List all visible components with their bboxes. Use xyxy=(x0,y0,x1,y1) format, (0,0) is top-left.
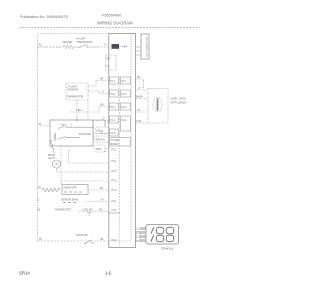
svg-text:WIRING DIAGRAM: WIRING DIAGRAM xyxy=(97,21,133,26)
terminal L2 bottom xyxy=(166,235,173,241)
svg-text:P4-2: P4-2 xyxy=(112,209,118,212)
svg-text:BL: BL xyxy=(101,237,105,241)
terminal L2 top xyxy=(166,227,173,233)
bottom wire with door switch xyxy=(38,240,109,242)
svg-text:P2-1: P2-1 xyxy=(122,81,128,83)
terminal lead stubs xyxy=(136,229,141,241)
svg-text:W: W xyxy=(39,237,42,241)
svg-text:ELECTRONIC CTRL: ELECTRONIC CTRL xyxy=(145,37,147,58)
svg-text:RLY: RLY xyxy=(107,58,112,61)
connector P3 wide box xyxy=(110,138,131,147)
wire mid to P3 pin xyxy=(69,150,109,163)
svg-text:SENSOR: SENSOR xyxy=(68,89,79,92)
board inner dashed rail xyxy=(119,76,121,213)
wire lower to P3 pin xyxy=(61,180,109,182)
relay output wire xyxy=(119,45,125,47)
relay contact box xyxy=(106,55,117,70)
terminal N top xyxy=(156,227,163,233)
terminal L1 top xyxy=(151,227,154,233)
svg-text:41: 41 xyxy=(39,43,43,47)
svg-text:BOARD: BOARD xyxy=(111,143,120,146)
drum lamp xyxy=(53,160,61,168)
svg-text:W: W xyxy=(39,122,42,126)
wire sensor to P4-1 xyxy=(85,201,109,203)
svg-text:4: 4 xyxy=(105,43,107,47)
drive motor dashed box xyxy=(148,89,168,124)
svg-text:LIGHT: LIGHT xyxy=(48,158,55,160)
svg-text:1-6: 1-6 xyxy=(105,271,112,276)
terminal block lead hatches xyxy=(140,228,146,242)
svg-text:Publication No: 5995449475: Publication No: 5995449475 xyxy=(20,15,68,19)
svg-text:P4-3: P4-3 xyxy=(112,239,118,242)
svg-text:4: 4 xyxy=(102,90,104,94)
terminal feed connector xyxy=(136,232,140,242)
svg-text:4: 4 xyxy=(139,86,141,90)
cabinet dashed outline left and top xyxy=(38,34,109,242)
motor block xyxy=(62,185,88,195)
timer junction xyxy=(76,119,78,121)
svg-text:1 BL: 1 BL xyxy=(136,119,142,123)
relay dashed box xyxy=(95,145,106,152)
terminal N bottom xyxy=(156,235,163,241)
wire thermistor down to timer xyxy=(76,100,78,120)
svg-text:P3 CON: P3 CON xyxy=(111,140,120,142)
svg-text:P3-1: P3-1 xyxy=(112,149,118,152)
wire thermistor to P1-2 xyxy=(88,91,110,94)
svg-text:3B: 3B xyxy=(100,130,103,134)
svg-text:K1: K1 xyxy=(107,65,111,68)
user interface board box xyxy=(141,34,149,59)
timer contact 1 xyxy=(58,126,94,129)
svg-text:THERMISTOR: THERMISTOR xyxy=(67,96,84,99)
svg-text:DR: DR xyxy=(97,131,101,133)
svg-text:TERM BLK: TERM BLK xyxy=(161,248,174,251)
timer drop wire xyxy=(60,146,62,184)
wire 4 xyxy=(136,89,149,91)
svg-text:SR14: SR14 xyxy=(19,271,30,276)
svg-text:BN: BN xyxy=(100,103,104,107)
svg-text:DOOR SW: DOOR SW xyxy=(79,133,91,136)
wire thermistor to P1-1 xyxy=(88,81,110,87)
motor run coil xyxy=(42,188,60,192)
svg-text:F5559HW0: F5559HW0 xyxy=(102,14,121,18)
svg-text:MTR LEADS: MTR LEADS xyxy=(171,101,187,105)
svg-text:P3-5: P3-5 xyxy=(112,189,118,192)
svg-text:W: W xyxy=(38,208,41,212)
svg-text:4N: 4N xyxy=(99,208,102,212)
svg-text:HEATER: HEATER xyxy=(63,41,73,44)
svg-text:THERMOSTAT: THERMOSTAT xyxy=(77,41,94,44)
svg-text:BK/W: BK/W xyxy=(136,95,143,99)
svg-text:P1-3: P1-3 xyxy=(111,107,117,109)
svg-text:LINE 1: LINE 1 xyxy=(60,125,67,127)
svg-text:P1-2: P1-2 xyxy=(111,94,117,96)
svg-text:THERMOSTAT: THERMOSTAT xyxy=(55,209,72,212)
page fold dashed line xyxy=(19,27,200,29)
terminal block body xyxy=(146,225,179,245)
svg-text:P2-3: P2-3 xyxy=(122,107,128,109)
heater element coil xyxy=(63,45,74,49)
svg-text:P1-1: P1-1 xyxy=(111,81,117,83)
wire lamp to P3 pin xyxy=(57,168,109,172)
svg-text:MTR: MTR xyxy=(96,149,101,151)
control board outline xyxy=(109,34,136,248)
svg-text:BL: BL xyxy=(100,186,104,190)
timer box xyxy=(50,120,93,146)
timer feed wire xyxy=(38,125,51,127)
timer top extension xyxy=(93,120,105,127)
svg-text:+LED SW: +LED SW xyxy=(82,209,93,212)
svg-text:P3-2: P3-2 xyxy=(112,160,118,163)
wire motor to P4 xyxy=(88,189,109,191)
svg-text:P3-3: P3-3 xyxy=(112,170,118,173)
svg-text:DRIVE MTR: DRIVE MTR xyxy=(64,187,77,190)
relay pin xyxy=(125,45,128,48)
pin column lower dashed rail xyxy=(119,213,121,248)
svg-text:4 BN: 4 BN xyxy=(76,110,81,112)
wire BL to motor box xyxy=(136,79,144,89)
terminal L1 bottom xyxy=(151,235,154,241)
heater relay hatched block xyxy=(112,44,120,49)
svg-text:P4-1: P4-1 xyxy=(112,200,118,203)
pin column bottom close xyxy=(109,212,120,214)
chassis ground mark xyxy=(87,213,91,216)
wire GY xyxy=(136,111,149,113)
door switch dashed box xyxy=(95,127,109,134)
wire 1BL xyxy=(136,122,149,124)
thermistor dashed box xyxy=(66,83,88,100)
svg-text:4: 4 xyxy=(105,151,107,154)
wire 3B to P1-5 xyxy=(93,133,110,135)
board pin labels column xyxy=(112,149,118,243)
svg-text:P2-2: P2-2 xyxy=(122,94,128,96)
motor winding bar xyxy=(157,99,159,111)
door switch symbol xyxy=(85,240,94,244)
svg-text:TIMER: TIMER xyxy=(53,133,57,141)
wire into board xyxy=(98,46,109,48)
svg-text:DOOR SW: DOOR SW xyxy=(76,234,88,237)
connector P2 column rows xyxy=(121,77,131,131)
svg-text:SWITCH: SWITCH xyxy=(96,140,105,142)
wire thermistor right leg down xyxy=(87,100,89,120)
svg-text:P2-4: P2-4 xyxy=(122,120,128,122)
wire heater feed xyxy=(38,46,64,48)
motor winding oval xyxy=(153,98,162,112)
wire BN to P1-3 xyxy=(70,107,110,113)
timer contact 2 xyxy=(58,136,80,139)
svg-text:GY: GY xyxy=(137,108,141,112)
lamp resistor diagonal xyxy=(50,140,56,153)
svg-text:P1-5: P1-5 xyxy=(111,133,117,135)
wire BKW xyxy=(136,98,149,100)
svg-text:SENSOR BARS: SENSOR BARS xyxy=(61,199,79,202)
wire box3 to pin xyxy=(105,148,109,150)
svg-text:BK: BK xyxy=(100,77,104,81)
svg-text:BL: BL xyxy=(137,75,141,79)
svg-text:P3-4: P3-4 xyxy=(112,180,118,183)
cabinet bottom dashed segment xyxy=(109,240,131,242)
wire 3 to P1-4 xyxy=(93,120,110,122)
hi-limit thermostat switch xyxy=(74,45,98,47)
cabinet right dashed edge xyxy=(130,34,132,242)
wire thermostat to P4-2 xyxy=(78,211,109,213)
svg-text:W: W xyxy=(101,198,104,202)
svg-text:4: 4 xyxy=(71,125,73,127)
svg-text:DRUM: DRUM xyxy=(48,155,55,157)
svg-text:5: 5 xyxy=(38,198,40,202)
connector P1 column rows xyxy=(110,77,119,136)
svg-text:1N: 1N xyxy=(38,186,41,190)
interface pins xyxy=(136,47,142,55)
interlock dashed box xyxy=(94,136,109,143)
svg-text:P1-4: P1-4 xyxy=(111,120,117,122)
